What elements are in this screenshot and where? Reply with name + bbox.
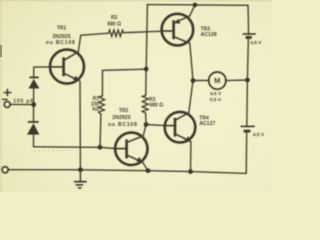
junction dot top rail (193, 3, 198, 8)
input terminal circle (4, 101, 10, 107)
junction dot motor left (191, 78, 196, 83)
junction dot R3 bottom (144, 122, 149, 127)
wire R3 stem top (145, 69, 147, 95)
transistor TR2 2N2925 (115, 133, 147, 165)
svg-text:2N2925: 2N2925 (112, 115, 130, 121)
diode D1 (29, 76, 38, 78)
wire R1 top horizontal (103, 69, 147, 70)
resistor R2 zigzag (109, 30, 124, 36)
wire diode column segment a (33, 67, 35, 77)
svg-text:4,5 V: 4,5 V (253, 132, 265, 138)
wire left vertical from top rail down to R1/R3 node (146, 5, 147, 69)
svg-text:AC127: AC127 (199, 121, 215, 127)
wire battery B2 to bottom right corner (245, 131, 248, 173)
svg-text:4,5 V: 4,5 V (210, 91, 222, 97)
svg-text:2N2925: 2N2925 (52, 34, 70, 40)
svg-text:ou BC108: ou BC108 (46, 40, 76, 46)
wire TR3 collector drop (190, 43, 193, 80)
plus sign (4, 92, 12, 94)
transistor TR4 AC127 (NPN) (165, 112, 196, 143)
wire bottom rail (8, 170, 246, 174)
paper background (0, 0, 272, 192)
junction dot R1 bottom (98, 145, 103, 150)
wire TR2 collector riser (143, 125, 146, 136)
wire top rail (147, 4, 248, 7)
svg-text:680 Ω: 680 Ω (107, 22, 121, 28)
svg-text:R2: R2 (111, 15, 118, 21)
motor M (209, 72, 226, 89)
wire diode node to TR2 base (34, 147, 115, 149)
wire R3 stem bottom (145, 113, 147, 124)
wire TR1 collector riser (78, 33, 108, 52)
wire TR4 collector rise (189, 81, 193, 113)
junction dot ground rail (78, 167, 83, 172)
resistor R3 zigzag (142, 95, 148, 113)
transistor TR1 2N2925 (50, 50, 84, 84)
wire TR4 base (146, 125, 165, 126)
wire diode column segment b (33, 88, 35, 104)
svg-text:M: M (214, 76, 220, 85)
left edge shading (0, 0, 2, 192)
ground symbol (79, 170, 81, 182)
svg-text:ou BC108: ou BC108 (108, 122, 138, 128)
wire TR4 emitter drop (190, 142, 192, 172)
junction dot input node (31, 102, 36, 107)
wire battery B1 to motor node (247, 37, 248, 80)
junction dot R1 top (144, 67, 149, 72)
resistor R1 zigzag (99, 96, 105, 148)
output terminal circle (2, 167, 8, 173)
wire TR3 emitter riser (190, 5, 195, 16)
wire R1 riser (101, 70, 103, 96)
diode D2 (28, 121, 39, 123)
svg-text:100 µA: 100 µA (13, 98, 34, 104)
battery B1 (243, 33, 256, 35)
wire input terminal (10, 103, 33, 105)
junction dot TR4 emitter rail (188, 169, 193, 174)
svg-text:0,5 A: 0,5 A (210, 97, 222, 103)
wire diode column segment d (33, 135, 35, 147)
svg-text:TR2: TR2 (119, 108, 129, 114)
wire motor row right (226, 79, 248, 82)
svg-text:TR1: TR1 (57, 25, 67, 31)
wire diode column segment c (33, 105, 35, 122)
transistor TR3 AC128 (PNP) (162, 14, 194, 46)
svg-text:4,5 V: 4,5 V (250, 40, 262, 46)
svg-text:680 Ω: 680 Ω (150, 102, 164, 108)
wire TR2 emitter to rail (143, 162, 148, 171)
wire TR1 base left (34, 66, 50, 68)
junction dot motor right (245, 78, 250, 83)
wire right rail upper (to battery B1) (247, 5, 250, 34)
junction dot TR2 emitter rail (146, 168, 151, 173)
svg-text:AC128: AC128 (201, 32, 217, 38)
wire motor row left (193, 80, 209, 82)
wire TR1 emitter drop (79, 81, 81, 170)
battery B2 (241, 125, 255, 127)
svg-text:kΩ: kΩ (92, 107, 99, 113)
wire R2 right to TR3 base (124, 31, 162, 33)
wire motor node down to battery B2 (246, 80, 249, 126)
